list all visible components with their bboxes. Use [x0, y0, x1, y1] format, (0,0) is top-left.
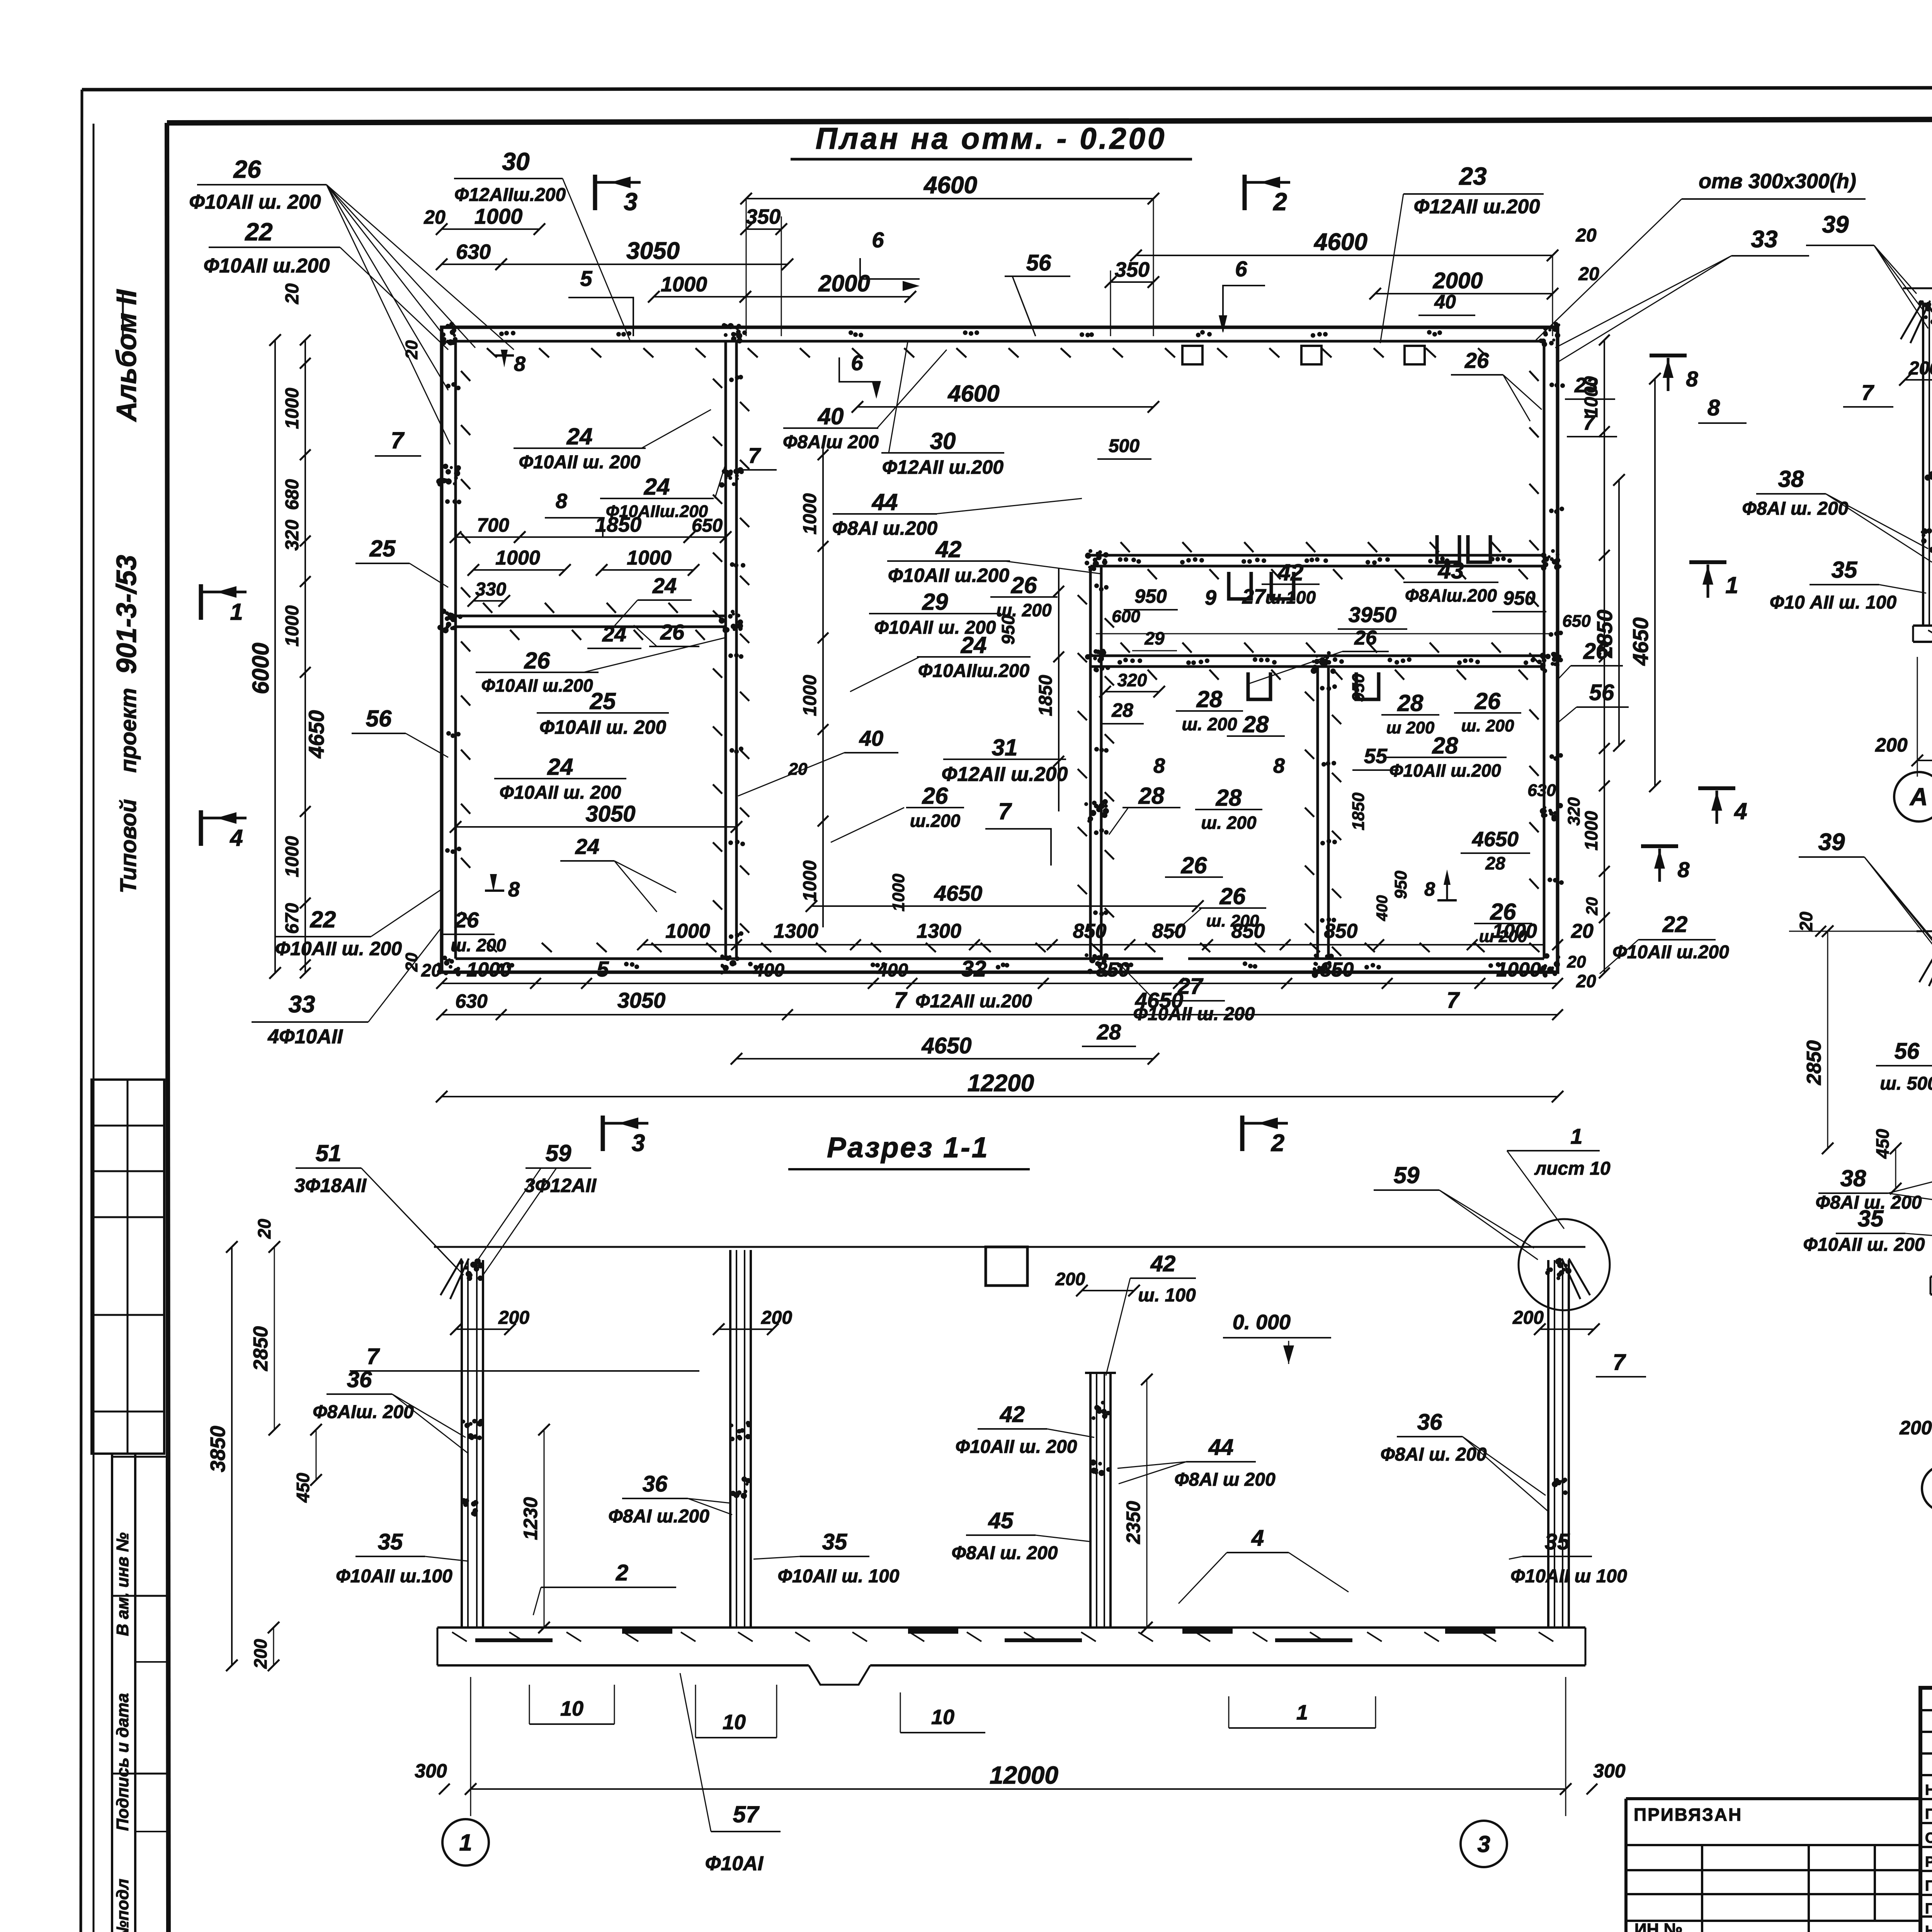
svg-text:4650: 4650: [1628, 617, 1653, 666]
left small texts 20: [402, 340, 421, 972]
label 40 center left: [738, 726, 898, 796]
section 1-1 title: [788, 1131, 1030, 1169]
svg-text:ш. 100: ш. 100: [1138, 1285, 1196, 1306]
svg-text:20: 20: [1575, 225, 1597, 246]
svg-text:4: 4: [1251, 1526, 1264, 1551]
label 33 right: [1555, 226, 1809, 361]
svg-text:200: 200: [250, 1639, 270, 1669]
svg-text:3050: 3050: [617, 988, 666, 1012]
svg-text:350: 350: [1115, 258, 1150, 281]
svg-text:28: 28: [1097, 1020, 1121, 1044]
label 7 at V1: [734, 443, 777, 470]
privyazan box: [1626, 1799, 1920, 1932]
svg-text:4: 4: [1734, 798, 1747, 824]
left vertical chain 6000: [248, 334, 281, 979]
svg-text:Ф8АIш.200: Ф8АIш.200: [1405, 585, 1497, 605]
svg-text:1: 1: [1296, 1701, 1308, 1724]
svg-text:680: 680: [282, 479, 303, 510]
section flag 4 left: [201, 810, 247, 851]
plan inner wall H2: [1090, 555, 1544, 566]
section 1-1 circle 1: [442, 1819, 489, 1866]
svg-text:20: 20: [423, 206, 446, 228]
section flag 8 left room2: [485, 874, 520, 901]
svg-text:36: 36: [1417, 1410, 1442, 1435]
svg-text:200: 200: [498, 1308, 529, 1328]
room4 vert dims: [1349, 673, 1410, 922]
svg-text:26: 26: [1490, 899, 1516, 925]
top dimension 4600 right: [1130, 229, 1558, 336]
top dimension 4600 left: [740, 172, 1159, 336]
svg-text:1000: 1000: [665, 920, 710, 942]
svg-text:4650: 4650: [1472, 828, 1519, 851]
svg-text:Ф10АII ш.200: Ф10АII ш.200: [1389, 760, 1501, 781]
bottom chain row2: [421, 956, 1563, 1012]
svg-text:670: 670: [282, 903, 303, 934]
svg-text:Ф8АIш. 200: Ф8АIш. 200: [313, 1402, 414, 1422]
svg-text:40: 40: [859, 726, 883, 750]
svg-text:ш. 500: ш. 500: [1880, 1073, 1932, 1094]
svg-text:35: 35: [822, 1529, 847, 1554]
label 43 F8AI: [1403, 558, 1498, 605]
svg-text:1300: 1300: [917, 920, 961, 942]
svg-text:35: 35: [378, 1529, 403, 1554]
section 2-2 label 8: [1698, 395, 1747, 423]
svg-text:59: 59: [546, 1140, 571, 1166]
svg-text:12200: 12200: [968, 1070, 1034, 1097]
svg-text:24: 24: [575, 834, 599, 859]
svg-text:200: 200: [1899, 1417, 1932, 1439]
section 1-1 label 42 F10AII: [956, 1402, 1094, 1457]
plan inner wall V3: [1318, 667, 1328, 959]
bottom left label 22 F10AII: [274, 889, 442, 959]
room4 labels 28: [1381, 690, 1439, 737]
dim 600 29: [1096, 607, 1591, 651]
left strip bottom cells with rotated labels: [112, 1454, 168, 1932]
svg-text:Ф12АII ш.200: Ф12АII ш.200: [1414, 196, 1540, 218]
section 1-1 dim 200 short wall: [1055, 1269, 1140, 1296]
svg-text:Ф10АII ш. 200: Ф10АII ш. 200: [500, 782, 621, 803]
svg-text:23: 23: [1459, 162, 1486, 190]
svg-text:8: 8: [514, 352, 526, 376]
svg-text:450: 450: [293, 1473, 313, 1503]
svg-text:Ф10АI: Ф10АI: [705, 1852, 764, 1875]
svg-text:ПРОВЕР.: ПРОВЕР.: [1925, 1806, 1932, 1822]
labels 28 28 room3: [1109, 783, 1180, 835]
label 56 top: [1005, 250, 1070, 336]
section flag 3 top: [595, 175, 641, 216]
section 1-1 label 36 mid: [608, 1471, 732, 1527]
section 1-1 label 7 left: [350, 1344, 699, 1371]
svg-text:850: 850: [1152, 920, 1186, 942]
label 56 left: [352, 706, 448, 757]
svg-text:Ф8АI ш.200: Ф8АI ш.200: [608, 1506, 709, 1527]
dim 3050 room2: [450, 801, 742, 833]
section flag 2 top: [1245, 175, 1290, 216]
svg-text:СТ. ИНЖ.: СТ. ИНЖ.: [1925, 1830, 1932, 1846]
section 1-1 left dims: [206, 1219, 322, 1671]
svg-text:43: 43: [1438, 558, 1464, 583]
svg-text:4650: 4650: [934, 881, 983, 905]
svg-text:6: 6: [872, 228, 884, 252]
section 1-1 right wall: [1545, 1258, 1590, 1628]
bottom chain row4 4650: [731, 1033, 1159, 1065]
section 1-1 dim 200 mid: [713, 1308, 792, 1335]
section 1-1 top line: [434, 1247, 1585, 1286]
title block role rows: [1920, 1799, 1932, 1917]
section flag 8 right bottom: [1641, 846, 1690, 882]
svg-text:25: 25: [590, 688, 616, 714]
svg-text:2000: 2000: [818, 270, 870, 296]
svg-text:24: 24: [566, 423, 593, 449]
svg-text:Ф10АII ш. 200: Ф10АII ш. 200: [275, 938, 402, 959]
rebar hooks under H2: [1437, 535, 1459, 562]
svg-text:30: 30: [930, 428, 956, 454]
section 1-1 label 42 sh100: [1106, 1251, 1196, 1376]
svg-text:2000: 2000: [1432, 268, 1483, 293]
svg-text:42: 42: [1277, 560, 1304, 585]
svg-text:650: 650: [692, 515, 723, 536]
svg-text:22: 22: [310, 906, 336, 932]
section 1-1 labels 10: [529, 1685, 1376, 1738]
svg-text:26: 26: [660, 620, 685, 644]
svg-text:26: 26: [233, 155, 261, 183]
svg-text:8: 8: [1686, 367, 1698, 391]
top flag 6 left: [839, 350, 881, 399]
svg-text:950: 950: [1134, 585, 1167, 607]
svg-text:ш. 200: ш. 200: [1461, 716, 1515, 735]
section 2-2 label 35 bottom left: [1770, 557, 1926, 613]
svg-text:200: 200: [1055, 1269, 1085, 1289]
svg-text:8: 8: [1273, 754, 1285, 777]
svg-text:42: 42: [935, 536, 962, 562]
section 1-1 0.000 mark: [1223, 1311, 1331, 1364]
svg-text:1000: 1000: [800, 675, 820, 716]
plan inner wall H1: [456, 616, 726, 627]
svg-text:26: 26: [1464, 348, 1489, 372]
svg-text:500: 500: [1109, 436, 1139, 456]
svg-text:51: 51: [316, 1140, 342, 1166]
section 1-1 left wall: [440, 1259, 484, 1628]
section 1-1 label 35 left: [336, 1529, 468, 1587]
svg-text:26: 26: [922, 783, 948, 809]
label 30 F12AII: [454, 148, 630, 340]
svg-text:Ф8АI ш 200: Ф8АI ш 200: [1174, 1469, 1276, 1490]
svg-text:Ф10АII ш.200: Ф10АII ш.200: [888, 565, 1009, 586]
bottom chain total 12200: [436, 1070, 1563, 1102]
svg-text:7: 7: [391, 427, 405, 453]
svg-text:901-3-/53: 901-3-/53: [111, 555, 142, 674]
dim row 1000 1000: [468, 547, 699, 576]
svg-text:35: 35: [1832, 557, 1858, 583]
top dimension 1000 2000: [648, 270, 916, 303]
section 3-3 left dims 2850 450 1230: [1803, 925, 1932, 1282]
svg-text:ш. 200: ш. 200: [1206, 912, 1260, 930]
section 3-3 floor slab: [1930, 1277, 1932, 1294]
left strip rotated captions: [111, 289, 142, 893]
section flag 8 left top small: [495, 344, 526, 376]
svg-text:28: 28: [1111, 699, 1133, 721]
svg-text:3: 3: [632, 1130, 645, 1156]
label 42 sh100: [1262, 560, 1320, 607]
svg-text:ГИП: ГИП: [1925, 1878, 1932, 1894]
top dimension 350 left: [740, 205, 787, 336]
section 1-1 label 2: [533, 1560, 676, 1615]
svg-text:Ф10АII ш.200: Ф10АII ш.200: [481, 675, 593, 696]
svg-text:Ф10АIIш.200: Ф10АIIш.200: [918, 661, 1030, 681]
svg-text:28: 28: [1397, 690, 1423, 716]
svg-text:850: 850: [1320, 959, 1354, 981]
svg-text:1: 1: [1570, 1124, 1582, 1148]
svg-text:2: 2: [1273, 188, 1287, 216]
svg-text:30: 30: [502, 148, 529, 175]
section 1-1 label 36 right: [1381, 1410, 1548, 1511]
section 1-1 dim 200 left: [450, 1308, 529, 1335]
svg-text:20: 20: [402, 952, 421, 972]
svg-text:Н.КОНТ.: Н.КОНТ.: [1925, 1782, 1932, 1798]
svg-text:300: 300: [1593, 1760, 1626, 1782]
section 1-1 dim 12000: [415, 1677, 1626, 1816]
label otv 300x300: [1536, 170, 1866, 340]
label 23 F12AII: [1380, 162, 1544, 343]
svg-text:700: 700: [477, 514, 509, 536]
section flag 1 right: [1689, 562, 1738, 598]
svg-text:Ф10АII ш.100: Ф10АII ш.100: [336, 1566, 452, 1587]
section 3-3 label 38 left: [1816, 1165, 1932, 1213]
svg-text:3850: 3850: [206, 1426, 230, 1472]
svg-text:Ф10АII ш. 200: Ф10АII ш. 200: [956, 1437, 1077, 1457]
svg-text:40: 40: [1434, 291, 1456, 313]
svg-text:950: 950: [1391, 871, 1410, 899]
section flag 1 left: [201, 584, 247, 625]
bottom flag 3: [603, 1116, 648, 1156]
svg-text:1000: 1000: [282, 836, 303, 877]
label 26 sh200b: [990, 572, 1058, 620]
svg-text:4650: 4650: [304, 710, 328, 759]
svg-text:5: 5: [580, 266, 592, 291]
bottom labels 26 sh200: [440, 908, 506, 955]
svg-text:Ф8АIш 200: Ф8АIш 200: [783, 432, 879, 452]
svg-text:1000: 1000: [282, 605, 303, 646]
label 28 room3 mid: [1227, 711, 1285, 737]
svg-text:20: 20: [1583, 897, 1601, 916]
section 2-2 label 38 left: [1742, 466, 1932, 562]
svg-text:10: 10: [931, 1706, 954, 1729]
section 1-1 floor slab: [437, 1628, 1585, 1685]
svg-text:ГЛ.КОНСТР: ГЛ.КОНСТР: [1925, 1901, 1932, 1917]
label 24 room1: [514, 410, 711, 473]
in-plan dim 4600: [852, 381, 1159, 459]
svg-text:1000: 1000: [495, 547, 540, 569]
dim 330 24: [468, 573, 692, 626]
svg-text:6: 6: [851, 350, 863, 375]
svg-text:Ф10АII ш. 200: Ф10АII ш. 200: [1803, 1235, 1925, 1255]
svg-text:2850: 2850: [1803, 1040, 1825, 1085]
svg-text:20: 20: [1571, 920, 1594, 942]
svg-text:24: 24: [652, 573, 677, 598]
top dimension 350 right: [1105, 258, 1159, 336]
svg-text:3Ф12АII: 3Ф12АII: [524, 1175, 597, 1196]
svg-text:7: 7: [1447, 988, 1460, 1013]
svg-text:630: 630: [456, 240, 491, 264]
svg-text:200: 200: [1908, 358, 1932, 379]
svg-text:27: 27: [1242, 585, 1267, 608]
svg-text:56: 56: [1589, 680, 1614, 705]
svg-text:6: 6: [1235, 257, 1247, 281]
svg-text:Ф10АII ш. 200: Ф10АII ш. 200: [539, 716, 666, 738]
svg-text:650: 650: [1562, 612, 1591, 631]
svg-text:ИН №: ИН №: [1634, 1920, 1683, 1932]
svg-text:24: 24: [602, 622, 626, 646]
wall rebar dot rows: [445, 330, 1565, 969]
svg-text:20: 20: [402, 340, 421, 359]
svg-text:850: 850: [1073, 920, 1107, 942]
svg-text:А: А: [1909, 783, 1928, 811]
svg-text:отв 300х300(h): отв 300х300(h): [1699, 170, 1856, 193]
label 40 F8AI center top: [783, 350, 947, 452]
svg-text:39: 39: [1822, 211, 1849, 238]
svg-text:1000: 1000: [1581, 811, 1601, 850]
svg-text:Ф12АII ш.200: Ф12АII ш.200: [942, 763, 1068, 786]
svg-text:20: 20: [421, 960, 441, 980]
right 56 label: [1558, 680, 1629, 723]
svg-text:Инв.№подл: Инв.№подл: [113, 1879, 132, 1932]
top dimension 630 3050: [436, 238, 793, 270]
svg-text:28: 28: [1243, 711, 1269, 737]
svg-text:950: 950: [1503, 587, 1536, 609]
svg-text:28: 28: [1432, 733, 1458, 759]
svg-text:Ф10АII ш 100: Ф10АII ш 100: [1510, 1566, 1627, 1587]
svg-text:28: 28: [1216, 785, 1242, 811]
svg-text:450: 450: [1872, 1129, 1893, 1159]
label 25 F10AII room2: [537, 688, 669, 738]
bottom label 28: [1082, 1020, 1136, 1046]
bottom chain row3 630 3050 4650: [436, 988, 1563, 1020]
plan inner wall V1: [726, 341, 736, 959]
svg-text:Ф10 АII ш. 100: Ф10 АII ш. 100: [1770, 592, 1897, 613]
svg-text:ш. 200: ш. 200: [996, 600, 1052, 620]
plan wall holes 300x300: [1301, 346, 1321, 364]
svg-text:1: 1: [1725, 572, 1738, 598]
svg-text:Ф12АIIш.200: Ф12АIIш.200: [454, 185, 566, 205]
svg-text:1000: 1000: [282, 388, 303, 429]
svg-text:Ф10АII ш. 200: Ф10АII ш. 200: [519, 452, 641, 473]
svg-text:38: 38: [1840, 1165, 1866, 1191]
section 2-2 left wall: [1901, 298, 1932, 626]
top flag 5: [568, 266, 633, 336]
svg-text:300: 300: [415, 1760, 447, 1782]
svg-text:22: 22: [245, 218, 272, 246]
svg-text:10: 10: [723, 1711, 746, 1734]
svg-text:28: 28: [1138, 783, 1165, 809]
svg-text:20: 20: [1567, 952, 1586, 971]
section 1-1 label 35 mid: [753, 1529, 900, 1587]
label 30 F12AII center: [881, 340, 1004, 478]
top 20 20 right: [1575, 225, 1599, 284]
section 1-1 labels 59 1 right: [1374, 1124, 1611, 1260]
labels 29 26 42 near center right: [869, 589, 1001, 638]
svg-text:1850: 1850: [1036, 675, 1056, 716]
svg-text:Ф10АII ш. 200: Ф10АII ш. 200: [874, 617, 996, 638]
svg-text:1000: 1000: [627, 547, 672, 569]
section 1-1 dim 1230: [520, 1424, 550, 1633]
plan inner wall V2: [1090, 566, 1101, 959]
svg-text:200: 200: [1512, 1308, 1544, 1328]
svg-text:31: 31: [992, 735, 1018, 760]
svg-text:2: 2: [1271, 1130, 1284, 1156]
right 2850 4650: [1592, 373, 1661, 792]
svg-text:3: 3: [1477, 1831, 1490, 1857]
svg-text:44: 44: [1208, 1435, 1234, 1460]
svg-text:320: 320: [1565, 797, 1583, 826]
svg-text:4650: 4650: [921, 1033, 971, 1058]
section 3-3 label 35 left: [1803, 1206, 1932, 1255]
svg-text:40: 40: [818, 403, 844, 429]
svg-text:57: 57: [733, 1801, 760, 1827]
svg-text:ш.100: ш.100: [1265, 587, 1316, 607]
section 1-1 label 44: [1117, 1435, 1276, 1490]
label 24 F10AII room2: [494, 754, 626, 803]
labels 23 7 right of corner: [1565, 374, 1617, 437]
svg-text:5: 5: [597, 957, 609, 981]
svg-text:7: 7: [748, 443, 761, 468]
svg-text:ПРИВЯЗАН: ПРИВЯЗАН: [1634, 1804, 1742, 1825]
svg-text:Ф10АII ш.200: Ф10АII ш.200: [1612, 942, 1729, 963]
svg-text:56: 56: [1026, 250, 1051, 276]
svg-text:Ф10АII ш.200: Ф10АII ш.200: [204, 255, 330, 277]
svg-text:38: 38: [1778, 466, 1804, 492]
svg-text:План на отм. - 0.200: План на отм. - 0.200: [816, 121, 1167, 155]
svg-text:20: 20: [1796, 912, 1816, 932]
svg-text:1000: 1000: [800, 493, 820, 534]
title block top small rows: [1920, 1710, 1932, 1775]
svg-text:24: 24: [547, 754, 573, 780]
svg-text:26: 26: [454, 908, 479, 932]
top dimension 2000 40 right: [1369, 268, 1558, 315]
svg-text:1850: 1850: [1349, 793, 1368, 830]
svg-text:33: 33: [1751, 226, 1778, 253]
dim row 700 1850 650: [450, 513, 731, 543]
svg-text:0. 000: 0. 000: [1233, 1311, 1291, 1334]
svg-text:400: 400: [753, 960, 784, 981]
section 2-2 axis circle A: [1894, 772, 1932, 821]
svg-text:29: 29: [1144, 628, 1165, 648]
svg-text:7: 7: [367, 1344, 380, 1369]
section 3-3 dim 20 left: [1789, 912, 1917, 937]
label 26 F10AP room2: [476, 638, 726, 696]
svg-text:1: 1: [230, 599, 243, 625]
svg-text:59: 59: [1394, 1162, 1420, 1188]
svg-text:25: 25: [369, 536, 396, 561]
svg-text:1000: 1000: [474, 204, 523, 228]
svg-text:600: 600: [1112, 607, 1140, 626]
svg-text:Подпись и дата: Подпись и дата: [113, 1693, 132, 1831]
svg-text:1000: 1000: [1496, 959, 1541, 981]
svg-text:200: 200: [761, 1308, 792, 1328]
svg-text:1000: 1000: [889, 874, 908, 912]
svg-text:В ам. инв №: В ам. инв №: [113, 1532, 132, 1636]
plan outer wall: [442, 327, 1558, 972]
section 3-3 left wall: [1919, 941, 1932, 1277]
svg-text:1000: 1000: [1581, 376, 1602, 417]
svg-text:1000: 1000: [466, 959, 511, 981]
svg-text:400: 400: [877, 960, 908, 981]
svg-text:Разрез 1-1: Разрез 1-1: [827, 1131, 989, 1163]
plan inner wall H3: [1090, 656, 1544, 667]
right vertical chain: [1581, 335, 1610, 978]
svg-text:20: 20: [1576, 971, 1596, 991]
section 1-1 label 4: [1179, 1526, 1349, 1604]
dim 320 room3: [1099, 670, 1165, 724]
